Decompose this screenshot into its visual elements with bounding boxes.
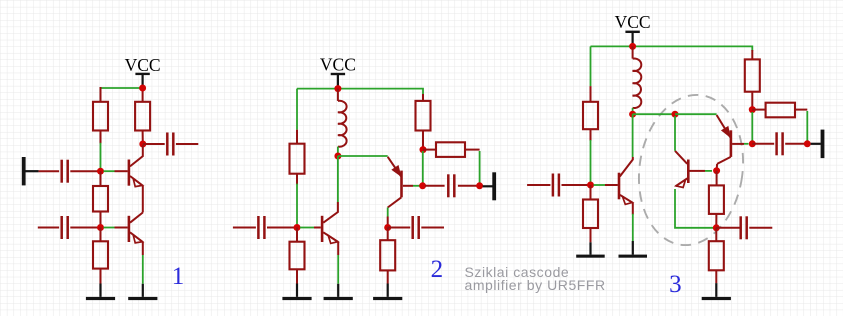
ground (circuit 1 right) <box>128 284 157 300</box>
wire Q7 emitter lead <box>632 203 634 215</box>
svg-text:amplifier by UR5FFR: amplifier by UR5FFR <box>465 277 606 293</box>
node Q6 collector junction <box>713 167 720 174</box>
wire R10 top lead <box>590 86 592 102</box>
wire VCC2 right (green) <box>338 89 423 95</box>
wire R12 top lead <box>751 50 753 59</box>
wire R1 bottom lead <box>100 131 102 144</box>
wire Q5 emitter down (green) <box>675 189 713 228</box>
wire node to node vertical (green) <box>422 151 424 184</box>
wire R7 bottom lead <box>422 131 424 150</box>
wire Q6 base lead <box>732 143 744 145</box>
wire R3 bottom lead <box>100 212 102 228</box>
resistor R3 <box>93 186 108 212</box>
node Q6 base junction <box>749 140 756 147</box>
wire C1 to node B1 <box>70 170 100 172</box>
capacitor C3 (output, circuit 1) <box>143 133 199 156</box>
resistor R11 <box>583 200 598 229</box>
port output terminal (circuit 3) <box>811 130 825 159</box>
wire L1 to Q4 emitter (green) <box>338 155 388 157</box>
wire R3 top lead <box>100 171 102 186</box>
node VCC3 junction <box>629 43 636 50</box>
wire Q6 collector lead <box>716 164 719 171</box>
ground (circuit 3 right) <box>619 241 648 258</box>
node VCC2 junction <box>334 85 341 92</box>
inductor L2 <box>633 46 642 114</box>
wire R5 top lead <box>296 130 298 144</box>
capacitor C7 (input, circuit 3) <box>553 174 559 197</box>
wire R10 to node B4 (green) <box>590 140 592 185</box>
svg-text:VCC: VCC <box>320 54 356 74</box>
wire input2 to C2 <box>38 227 59 229</box>
capacitor C1 (input, circuit 1) <box>62 160 68 183</box>
transistor Q5 (NPN mirrored) <box>675 151 688 188</box>
transistor Q6 (PNP) <box>717 115 731 164</box>
wire R2 bottom lead <box>142 131 144 145</box>
node Q4 base junction <box>419 182 426 189</box>
svg-text:2: 2 <box>431 256 444 283</box>
resistor R8 (feedback) <box>423 142 480 157</box>
ground (circuit 3 left) <box>576 242 605 257</box>
wire Q3 base lead <box>314 227 321 229</box>
power VCC (circuit 2) <box>320 54 356 88</box>
wire R9 top lead <box>387 228 389 241</box>
svg-text:VCC: VCC <box>125 55 161 75</box>
resistor R14 <box>709 185 724 214</box>
wire input to C1 <box>39 170 60 172</box>
wire Q2 base lead <box>115 227 128 229</box>
transistor Q3 (NPN) <box>322 216 338 244</box>
wire VCC3 right (green) <box>633 46 753 51</box>
resistor R13 (feedback) <box>752 103 807 118</box>
wire C6 to output node <box>458 185 477 187</box>
wire node B2 to Q2 base (green) <box>104 227 115 229</box>
wire Q5 collector to node mid (green) <box>674 116 676 151</box>
wire R15 bottom lead <box>715 270 717 283</box>
wire VCC2 left (green) <box>297 88 338 90</box>
node B3 junction <box>294 224 301 231</box>
wire node mid to Q6 emitter (green) <box>675 113 717 115</box>
node B4 junction <box>587 182 594 189</box>
wire R13 to output node (green) <box>806 111 808 141</box>
wire Q4 base lead <box>403 185 413 187</box>
resistor R15 <box>709 241 724 270</box>
wire R9 bottom lead <box>387 270 389 283</box>
resistor R12 <box>745 59 760 91</box>
wire C7 to node B4 <box>562 184 591 186</box>
capacitor C4 (input, circuit 2) <box>258 216 264 239</box>
wire R8 to output node (green) <box>479 151 481 184</box>
wire Q3 emitter lead <box>337 242 339 255</box>
wire R5 bottom lead <box>296 174 298 185</box>
wire L1 to Q3 collector (green) <box>337 156 339 202</box>
wire C2 to node B2 <box>70 227 100 229</box>
wire node B1 to Q1 base (green) <box>104 170 115 172</box>
wire VCC2 left down (green) <box>296 89 298 130</box>
wire L2 to node mid (green) <box>633 113 675 115</box>
wire R15 top lead <box>715 228 717 241</box>
wire Q5 base to node (green) <box>705 170 712 172</box>
resistor R2 <box>135 102 150 131</box>
wire VCC3 left down (green) <box>590 46 592 86</box>
wire R5 to node B3 (green) <box>296 184 298 228</box>
resistor R9 <box>380 240 395 270</box>
wire Q6base to C9 <box>752 143 774 145</box>
wire Q7 emitter to ground (green) <box>632 214 634 241</box>
transistor Q1 (NPN) <box>129 145 143 187</box>
capacitor C5 (circuit 2 bypass) <box>388 216 444 239</box>
wire Q2 emitter lead <box>142 242 144 255</box>
wire Q1 base lead <box>115 170 128 172</box>
wire Q4 base to node (green) <box>413 185 420 187</box>
capacitor C9 (output, circuit 3) <box>777 132 783 155</box>
wire Q4 base to C4out <box>425 185 445 187</box>
wire R14 top lead <box>716 171 718 186</box>
node B1 junction <box>97 168 104 175</box>
node L1 bottom junction <box>334 153 341 160</box>
ground (circuit 2 middle) <box>324 284 353 300</box>
svg-text:1: 1 <box>172 263 185 290</box>
wire Q6 base to node (green) <box>744 143 749 145</box>
node Q5 emitter junction <box>713 224 720 231</box>
wire Q5 base lead <box>690 170 706 172</box>
wire C9 to output node <box>785 143 804 145</box>
wire R6 top lead <box>296 228 298 242</box>
wire R2 top lead <box>142 88 144 102</box>
wire Q3 collector lead <box>323 202 338 223</box>
capacitor C6 (output, circuit 2) <box>448 174 454 197</box>
wire R12node to Q6 base node (green) <box>751 112 753 141</box>
node output junction (circuit 3) <box>804 140 811 147</box>
node R7 bottom junction <box>420 146 427 153</box>
power VCC (circuit 3) <box>615 12 651 46</box>
resistor R1 <box>93 102 108 131</box>
node collector C1out junction <box>139 141 146 148</box>
wire node B3 to Q3 base (green) <box>300 227 314 229</box>
wire R4 top lead <box>100 228 102 242</box>
node VCC1 junction <box>139 85 146 92</box>
svg-text:VCC: VCC <box>615 12 651 32</box>
resistor R10 <box>583 102 598 129</box>
inductor L1 <box>338 89 347 156</box>
wire R11 bottom lead <box>590 228 592 242</box>
node output junction (circuit 2) <box>476 182 483 189</box>
node B2 junction <box>97 224 104 231</box>
ground (circuit 1 left) <box>86 284 115 301</box>
resistor R5 <box>290 144 305 174</box>
wire R12 bottom lead <box>751 92 753 110</box>
wire Q4 collector lead <box>387 217 389 228</box>
wire input to C4 <box>233 227 256 229</box>
wire Q2 collector diag <box>130 213 143 223</box>
port output terminal (circuit 2) <box>483 172 496 200</box>
resistor R6 <box>290 242 305 270</box>
svg-text:3: 3 <box>669 271 682 298</box>
wire Q4 collector (green) <box>387 208 389 217</box>
wire R14 bottom lead <box>715 214 717 228</box>
transistor Q2 (NPN) <box>129 216 143 243</box>
highlight ellipse (dashed) <box>629 88 752 252</box>
node Q4 collector junction <box>384 224 391 231</box>
transistor Q4 (PNP) <box>388 157 402 208</box>
capacitor C8 (circuit 3 bypass) <box>716 216 772 239</box>
wire R10 bottom lead <box>590 129 592 141</box>
wire L2 to Q7 collector (green) <box>632 114 634 157</box>
node L2 bottom junction <box>629 111 636 118</box>
wire VCC1 to R1 top (green) <box>101 87 143 89</box>
port input terminal (circuit 1) <box>22 157 39 185</box>
wire R1 top lead <box>100 87 102 102</box>
transistor Q7 (NPN) <box>619 157 633 204</box>
wire input to C7 <box>527 184 550 186</box>
resistor R7 <box>416 101 431 131</box>
ground (circuit 3 bottom) <box>702 283 731 300</box>
wire Q1 emitter to Q2 collector <box>142 186 144 213</box>
ground (circuit 2 left) <box>282 284 311 301</box>
resistor R4 <box>93 241 108 268</box>
wire Q3 emitter to ground (green) <box>337 255 339 284</box>
wire Q2 emitter to ground (green) <box>142 255 144 284</box>
wire R7 top lead <box>422 94 424 101</box>
capacitor C2 (input 2, circuit 1) <box>62 216 68 239</box>
wire C4 to node B3 <box>267 227 297 229</box>
wire VCC3 left (green) <box>591 45 633 47</box>
wire node B4 to Q7 base (green) <box>594 184 606 186</box>
ground (circuit 2 right) <box>373 284 402 301</box>
wire R6 bottom lead <box>296 269 298 283</box>
power VCC (circuit 1) <box>125 55 161 88</box>
wire R11 top lead <box>590 185 592 200</box>
node mid junction <box>672 111 679 118</box>
wire Q7 base lead <box>605 184 618 186</box>
wire R1 to node B1 (green) <box>100 143 102 171</box>
node R12 bottom junction <box>749 106 756 113</box>
wire R4 bottom lead <box>100 269 102 284</box>
